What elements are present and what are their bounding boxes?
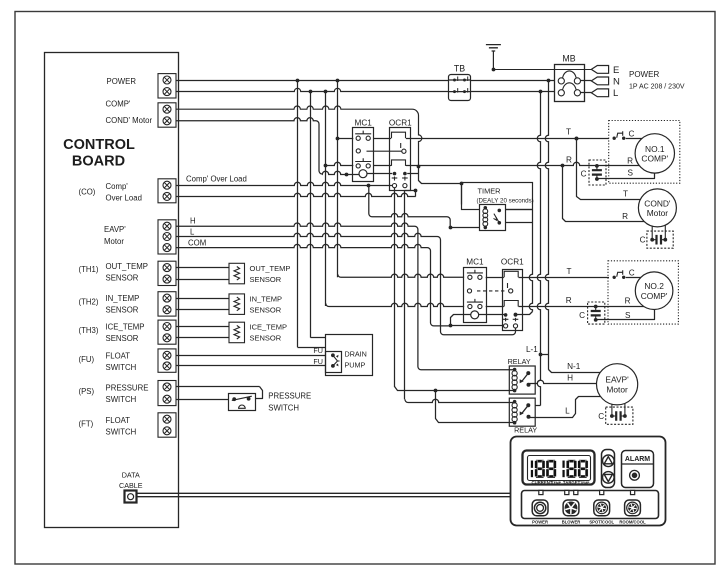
- svg-text:C: C: [629, 130, 635, 139]
- wire H: EAVP H terminal to relay1 coil top: [176, 223, 514, 370]
- svg-text:R: R: [566, 155, 572, 164]
- wire R down to COND motor: [563, 166, 645, 222]
- wire bus2 to drain pump: [311, 337, 326, 339]
- svg-text:OCR1: OCR1: [501, 258, 524, 267]
- bus wire 4 (from line1 down to NO.2 T line): [337, 80, 339, 277]
- contact MC1 lower main contact 2: [467, 299, 483, 309]
- overload heater OCR1 lower heater 2: [504, 301, 518, 307]
- wire bus1 to drain pump: [298, 347, 326, 349]
- junction at timer box corner: [460, 182, 464, 186]
- svg-text:L: L: [190, 227, 195, 236]
- svg-text:COND' Motor: COND' Motor: [106, 116, 153, 125]
- wire to MC1 coil: [322, 171, 359, 174]
- svg-text:IN_TEMP: IN_TEMP: [250, 294, 283, 303]
- wire sensor lead 2: [176, 309, 229, 311]
- wire POWER line1 terminal to TB: [176, 80, 448, 82]
- svg-text:(TH2): (TH2): [79, 298, 99, 307]
- motor COND motor: [638, 189, 676, 227]
- wire R1 to capacitor: [563, 162, 597, 165]
- wire COND' motor: terminal right, corner down at 319, to MC1 coil line: [176, 118, 322, 174]
- svg-text:1P AC 208 / 230V: 1P AC 208 / 230V: [629, 84, 685, 91]
- svg-text:(CO): (CO): [79, 188, 96, 197]
- junction timer feed: [449, 226, 453, 230]
- button POWER: [532, 500, 548, 516]
- junction relay coil return branch: [434, 389, 438, 393]
- svg-text:RELAY: RELAY: [514, 426, 537, 435]
- wire v394 OCR1 pin down to relay1 coil return: [394, 188, 396, 387]
- wire T down to COND motor: [577, 139, 641, 200]
- junction bus3 R1: [324, 164, 328, 168]
- wire CO-B comp overload return: [176, 193, 416, 196]
- wire v405 to relay2 coil top (hop over branch): [405, 399, 514, 402]
- wire R1 capacitor to motor: [597, 165, 640, 167]
- svg-text:ROOM/COOL: ROOM/COOL: [619, 519, 646, 524]
- terminal block TH2: [158, 292, 176, 316]
- capacitor capacitor C NO.1: [592, 164, 602, 181]
- svg-text:H: H: [190, 217, 196, 226]
- mechanical link MC1-OCR1 (upper): [367, 150, 402, 152]
- svg-text:T: T: [567, 267, 572, 276]
- wire R2 from bus3 to MC1 lower: [326, 303, 464, 306]
- svg-text:Over Load: Over Load: [106, 194, 142, 203]
- svg-text:ICE_TEMP: ICE_TEMP: [250, 323, 288, 332]
- svg-text:T: T: [566, 128, 571, 137]
- overload relay OCR1 (lower) box: [503, 270, 523, 331]
- svg-text:SENSOR: SENSOR: [250, 275, 282, 284]
- button SPOT/COOL: [594, 500, 610, 516]
- capacitor capacitor C EAVP: [610, 411, 627, 421]
- wire relay2 output L to EAVP motor: [530, 397, 601, 418]
- svg-text:Motor: Motor: [606, 385, 628, 395]
- svg-text:Comp': Comp': [106, 182, 129, 191]
- wire timer contact out A: [505, 209, 533, 211]
- svg-text:CABLE: CABLE: [119, 481, 143, 490]
- svg-text:COND': COND': [644, 198, 671, 208]
- junction L-feed vertical: [539, 90, 543, 94]
- svg-text:SENSOR: SENSOR: [250, 334, 282, 343]
- data cable connector: [125, 491, 137, 503]
- svg-text:SWITCH: SWITCH: [106, 395, 137, 404]
- svg-text:C: C: [598, 412, 604, 421]
- wire branch to relay2 coil bottom: [436, 391, 515, 423]
- wire protector to NO.1 motor: [626, 138, 644, 140]
- svg-text:SENSOR: SENSOR: [106, 306, 139, 315]
- wire sensor lead 2: [176, 337, 229, 339]
- wires EAVP motor to capacitor: [612, 403, 625, 416]
- svg-text:OUT_TEMP: OUT_TEMP: [250, 264, 291, 273]
- thermal protector NO.2 thermal protector: [613, 270, 626, 279]
- wire R1 junction down to timer box corner: [419, 167, 462, 184]
- contactor MC1 (upper) box: [353, 128, 374, 182]
- svg-text:C: C: [640, 236, 646, 245]
- wire MC1 lower coil to OCR1 pin: [479, 314, 506, 316]
- wire sensor lead 1: [176, 298, 229, 300]
- svg-text:L: L: [613, 88, 618, 99]
- wire sensor lead 1: [176, 326, 229, 328]
- wire PS lead 2: [176, 399, 228, 401]
- svg-text:TARGET: TARGET: [563, 480, 581, 485]
- svg-text:FLOAT: FLOAT: [106, 352, 131, 361]
- wire FU lead 2 to drain pump: [176, 365, 326, 367]
- wire POWER line2 terminal to TB: [176, 88, 448, 91]
- svg-text:EAVP': EAVP': [104, 225, 126, 234]
- svg-text:MB: MB: [562, 54, 575, 64]
- overload contact OCR1 (lower) 4-pin: [503, 313, 519, 328]
- sensor IN_TEMP thermistor: [229, 294, 282, 315]
- junction bus3 on line2: [324, 90, 328, 94]
- wire T1 from bus4 into MC1: [338, 138, 354, 140]
- svg-text:BOARD: BOARD: [72, 154, 125, 170]
- junction R to COND motor: [561, 164, 565, 168]
- svg-text:FU: FU: [313, 346, 323, 355]
- svg-text:H: H: [567, 374, 573, 383]
- contact OCR1 trip (upper): [400, 143, 402, 148]
- terminal block TH3: [158, 320, 176, 344]
- svg-text:SWITCH: SWITCH: [268, 403, 299, 412]
- wires COND motor to capacitor: [652, 225, 665, 235]
- wire to relay1 coil bottom: [395, 387, 515, 391]
- motor NO.2 compressor: [635, 272, 673, 310]
- wire sensor lead 1: [176, 267, 229, 269]
- wire T2 OCR1 to NO.2 compressor: [519, 277, 610, 279]
- wire R2 MC1 to OCR1 lower: [486, 306, 504, 308]
- wire FU lead 1 to drain pump: [176, 355, 326, 357]
- indicator LEDs: [539, 490, 543, 494]
- svg-text:COMP': COMP': [641, 154, 668, 164]
- junction T node: [575, 137, 579, 141]
- svg-text:PRESSURE: PRESSURE: [106, 384, 149, 393]
- svg-text:S: S: [625, 311, 631, 320]
- svg-text:DATA: DATA: [122, 470, 140, 479]
- junction L-1 node: [539, 353, 543, 357]
- motor NO.1 compressor: [635, 134, 674, 173]
- svg-text:EAVP': EAVP': [605, 375, 629, 385]
- wire T2 MC1 to OCR1 lower: [486, 277, 504, 279]
- wire MB to spade L: [581, 92, 592, 94]
- wire COM: EAVP COM terminal to MC1-2 coil circuit: [176, 244, 451, 325]
- wire TB to MB line N: [471, 80, 555, 82]
- svg-text:E: E: [613, 65, 619, 76]
- data cable wires to display panel: [137, 493, 511, 495]
- svg-text:POWER: POWER: [532, 519, 548, 524]
- wire relay1 output H to EAVP motor: [530, 380, 599, 383]
- svg-text:ALARM: ALARM: [625, 456, 650, 463]
- junction COM at MC1-2 coil branch: [449, 324, 453, 328]
- svg-text:(PS): (PS): [79, 387, 95, 396]
- svg-text:TIMER: TIMER: [478, 187, 501, 196]
- junction OCR1-2 pin to timer wire: [514, 313, 518, 317]
- main terminal block MB: [555, 65, 585, 102]
- wire CO-B up to OCR1 pin: [405, 191, 416, 197]
- down button: [603, 472, 615, 484]
- overload heater OCR1 heater 2: [392, 160, 406, 166]
- wire R1 OCR1 right: [406, 165, 563, 167]
- wire S capacitor to NO.2 motor: [596, 310, 655, 320]
- wire sensor lead 2: [176, 279, 229, 281]
- svg-text:POWER: POWER: [107, 77, 137, 86]
- contact MC1 aux (upper): [356, 149, 360, 153]
- svg-text:POWER: POWER: [629, 70, 659, 79]
- svg-text:BLOWER: BLOWER: [562, 519, 581, 524]
- junction COMP wire on R1 line: [417, 165, 421, 169]
- terminal block TB: [448, 75, 471, 101]
- terminal block EAVP motor H/L/COM: [158, 220, 176, 254]
- svg-text:C: C: [629, 269, 635, 278]
- wire TB to MB line L: [471, 91, 555, 93]
- overload contact OCR1 (upper) 4-pin: [392, 172, 408, 188]
- wire up to MC1-2 coil: [451, 315, 471, 326]
- bus wire 2 (from line2 down to drain pump): [310, 92, 312, 338]
- button BLOWER: [563, 500, 579, 516]
- wire T1 MC1 to OCR1: [373, 138, 391, 140]
- wire v532 into OCR1-2 pin: [516, 312, 533, 315]
- dashed enclosure capacitor box COND: [647, 231, 673, 248]
- wire R2 capacitor to motor: [596, 306, 645, 308]
- wire OCR1 pin b to COMP line: [407, 173, 418, 175]
- terminal block COMP/COND: [158, 103, 176, 127]
- wire v532 timer to OCR1-2 contact: [529, 210, 532, 312]
- wire N-1 to EAVP motor: [549, 370, 603, 373]
- bus wire 3 (from line2 down to NO.2 R line): [325, 92, 327, 306]
- svg-text:TEMP: TEMP: [580, 481, 590, 485]
- junction bus4 T1: [336, 137, 340, 141]
- mechanical link dashed MC1-OCR1 (lower): [477, 290, 507, 292]
- junction bus1 on line1: [296, 79, 300, 83]
- svg-text:FLOAT: FLOAT: [106, 416, 131, 425]
- wire PS lead 1: [176, 386, 260, 388]
- contact MC1 main contact 2: [355, 158, 371, 168]
- contact OCR1 trip (lower): [507, 283, 509, 288]
- wire R2 OCR1 right to capacitor: [519, 306, 596, 308]
- svg-text:SWITCH: SWITCH: [106, 363, 137, 372]
- svg-text:DRAIN: DRAIN: [345, 350, 367, 359]
- display panel enclosure: [511, 437, 666, 526]
- svg-text:C: C: [579, 311, 585, 320]
- terminal block CO overload: [158, 179, 176, 203]
- junction N-feed vertical: [547, 79, 551, 83]
- wire R1 from bus3 into MC1: [326, 162, 354, 165]
- svg-text:Comp' Over Load: Comp' Over Load: [186, 175, 247, 184]
- svg-text:SENSOR: SENSOR: [106, 334, 139, 343]
- wire L-1 node to N-1 corner: [541, 354, 549, 356]
- junction bus4 on line1: [336, 79, 340, 83]
- svg-text:TEMP: TEMP: [552, 481, 562, 485]
- svg-text:SENSOR: SENSOR: [250, 305, 282, 314]
- overload heater OCR1 heater 1: [392, 132, 406, 138]
- svg-text:TB: TB: [454, 64, 465, 74]
- svg-text:S: S: [628, 169, 634, 178]
- svg-text:PUMP: PUMP: [345, 361, 366, 370]
- svg-text:SPOT/COOL: SPOT/COOL: [589, 519, 614, 524]
- svg-text:(DEALY 20 seconds): (DEALY 20 seconds): [477, 197, 534, 204]
- terminal block TH1: [158, 261, 176, 285]
- LCD digits target temp: [562, 460, 588, 478]
- terminal block POWER: [158, 74, 176, 98]
- pressure switch symbol: [229, 394, 256, 411]
- wire timer contact out B: [505, 222, 533, 224]
- button row box: [522, 491, 659, 519]
- junction T to COND motor: [575, 137, 579, 141]
- junction CO-A to timer loop: [367, 184, 371, 188]
- sensor OUT_TEMP thermistor: [229, 263, 290, 284]
- svg-text:Motor: Motor: [104, 237, 124, 246]
- button ROOM/COOL: [625, 500, 641, 516]
- svg-text:COMP': COMP': [106, 100, 131, 109]
- dashed enclosure capacitor box EAVP: [606, 407, 633, 424]
- wire v405 OCR1 pin down to relay2 coil top: [404, 190, 406, 399]
- svg-text:(TH1): (TH1): [79, 265, 99, 274]
- timer coil: [483, 206, 488, 229]
- svg-text:(FU): (FU): [79, 355, 95, 364]
- capacitor capacitor C NO.2: [591, 305, 601, 322]
- dashed enclosure capacitor box NO.2: [588, 302, 605, 324]
- wire MC1 coil to OCR1 pin a: [367, 173, 392, 175]
- wire CO-A staircase to timer coil: [369, 185, 450, 227]
- svg-text:ICE_TEMP: ICE_TEMP: [106, 323, 145, 332]
- wire timer feed along label box edge: [461, 184, 463, 205]
- alarm box: [622, 451, 654, 488]
- svg-text:N-1: N-1: [567, 362, 581, 371]
- svg-text:COM: COM: [188, 239, 206, 248]
- svg-text:MC1: MC1: [355, 119, 373, 128]
- thermal protector NO.1 thermal protector: [613, 131, 626, 140]
- up/down button panel: [602, 450, 615, 488]
- wire PS lead1 corner into switch right: [256, 387, 263, 399]
- coil MC1 coil (lower): [471, 311, 479, 319]
- relay RELAY 1: [509, 366, 535, 394]
- svg-text:CURRENT: CURRENT: [531, 480, 552, 485]
- svg-text:OUT_TEMP: OUT_TEMP: [106, 262, 148, 271]
- wire L-1 down to relay2 common: [537, 355, 540, 406]
- spade connector N: [591, 77, 608, 85]
- svg-text:CONTROL: CONTROL: [63, 137, 135, 153]
- wire to timer coil bottom: [450, 227, 485, 229]
- svg-text:R: R: [622, 212, 628, 221]
- svg-text:L: L: [565, 407, 570, 416]
- svg-text:C: C: [581, 169, 587, 178]
- svg-text:COMP': COMP': [641, 291, 668, 301]
- wire protector to NO.2 motor: [626, 277, 643, 279]
- wire earth E line to MB and spade: [493, 69, 591, 71]
- svg-text:SWITCH: SWITCH: [106, 428, 137, 437]
- svg-text:NO.1: NO.1: [645, 144, 665, 154]
- up button: [603, 455, 615, 467]
- wire into relay2 common: [536, 405, 541, 407]
- junction on MC1 coil wire: [345, 173, 349, 177]
- wire to OCR1-2 lower-left pin: [451, 325, 508, 327]
- wire MB to spade N: [581, 80, 592, 82]
- svg-text:OCR1: OCR1: [389, 119, 412, 128]
- wire v540 L-line down to L-1: [537, 92, 540, 355]
- junction CO-B corner: [414, 189, 418, 193]
- wire T2 from bus4 to MC1 lower: [338, 274, 464, 277]
- dashed enclosure NO.1 compressor unit: [609, 121, 680, 184]
- wire R1 MC1 to OCR1: [373, 165, 391, 167]
- bus wire 1 (from line1 down to drain pump): [297, 80, 299, 347]
- contact MC1 aux (lower): [467, 289, 471, 293]
- wire T1 OCR1 to NO.1 compressor: [406, 138, 609, 140]
- wire L: EAVP L terminal to OCR1-2 lower pin: [176, 233, 516, 335]
- junction ground to E wire: [492, 68, 496, 72]
- timer mechanism box: [480, 205, 506, 231]
- spade connector L: [591, 89, 608, 97]
- overload heater OCR1 lower heater 1: [504, 271, 518, 277]
- wire S capacitor to NO.1 motor: [597, 174, 655, 179]
- svg-text:T: T: [623, 190, 628, 199]
- svg-text:NO.2: NO.2: [644, 281, 664, 291]
- svg-text:L-1: L-1: [526, 345, 538, 354]
- LCD digits current temp: [531, 460, 557, 478]
- motor EAVP motor: [597, 364, 638, 405]
- junction bus2 on line2: [309, 90, 313, 94]
- wire COMP' output: terminal right, corner down, to R1 junction, down to timer feed: [176, 106, 422, 166]
- sensor ICE_TEMP thermistor: [229, 322, 287, 343]
- svg-text:R: R: [566, 296, 572, 305]
- svg-text:FU: FU: [313, 357, 323, 366]
- contact MC1 main contact 1: [355, 131, 371, 141]
- svg-text:R: R: [625, 297, 631, 306]
- timer label box: [462, 183, 533, 210]
- coil MC1 coil (upper): [359, 170, 367, 178]
- capacitor capacitor C COND: [650, 235, 667, 245]
- svg-text:N: N: [613, 76, 620, 87]
- wire v548 N-line down to N-1: [545, 80, 548, 370]
- svg-text:RELAY: RELAY: [508, 357, 531, 366]
- svg-text:R: R: [627, 156, 633, 165]
- svg-text:SENSOR: SENSOR: [106, 274, 139, 283]
- terminal block FU float switch: [158, 349, 176, 372]
- terminal block PS pressure switch: [158, 381, 176, 406]
- control board outline: [45, 53, 179, 528]
- ground symbol: [486, 45, 501, 70]
- contactor MC1 (lower) box: [464, 268, 487, 323]
- svg-text:Motor: Motor: [647, 208, 669, 218]
- dashed enclosure NO.2 compressor unit: [608, 261, 678, 324]
- drain pump assembly: [326, 335, 373, 376]
- alarm LED: [630, 470, 640, 480]
- svg-text:IN_TEMP: IN_TEMP: [106, 294, 140, 303]
- overload relay OCR1 (upper) box: [390, 128, 411, 191]
- spade connector E: [591, 66, 608, 74]
- svg-text:MC1: MC1: [466, 258, 484, 267]
- svg-text:(TH3): (TH3): [79, 326, 99, 335]
- relay RELAY 2: [509, 398, 535, 426]
- wire CO-A comp overload to OCR1 pin: [176, 182, 392, 185]
- timer contact: [494, 209, 502, 225]
- svg-text:PRESSURE: PRESSURE: [268, 391, 311, 400]
- dashed enclosure capacitor box NO.1: [589, 160, 606, 185]
- contact MC1 lower main contact 1: [467, 270, 483, 280]
- svg-text:(FT): (FT): [79, 420, 94, 429]
- terminal block FT float switch: [158, 413, 176, 437]
- LCD display box: [523, 451, 595, 485]
